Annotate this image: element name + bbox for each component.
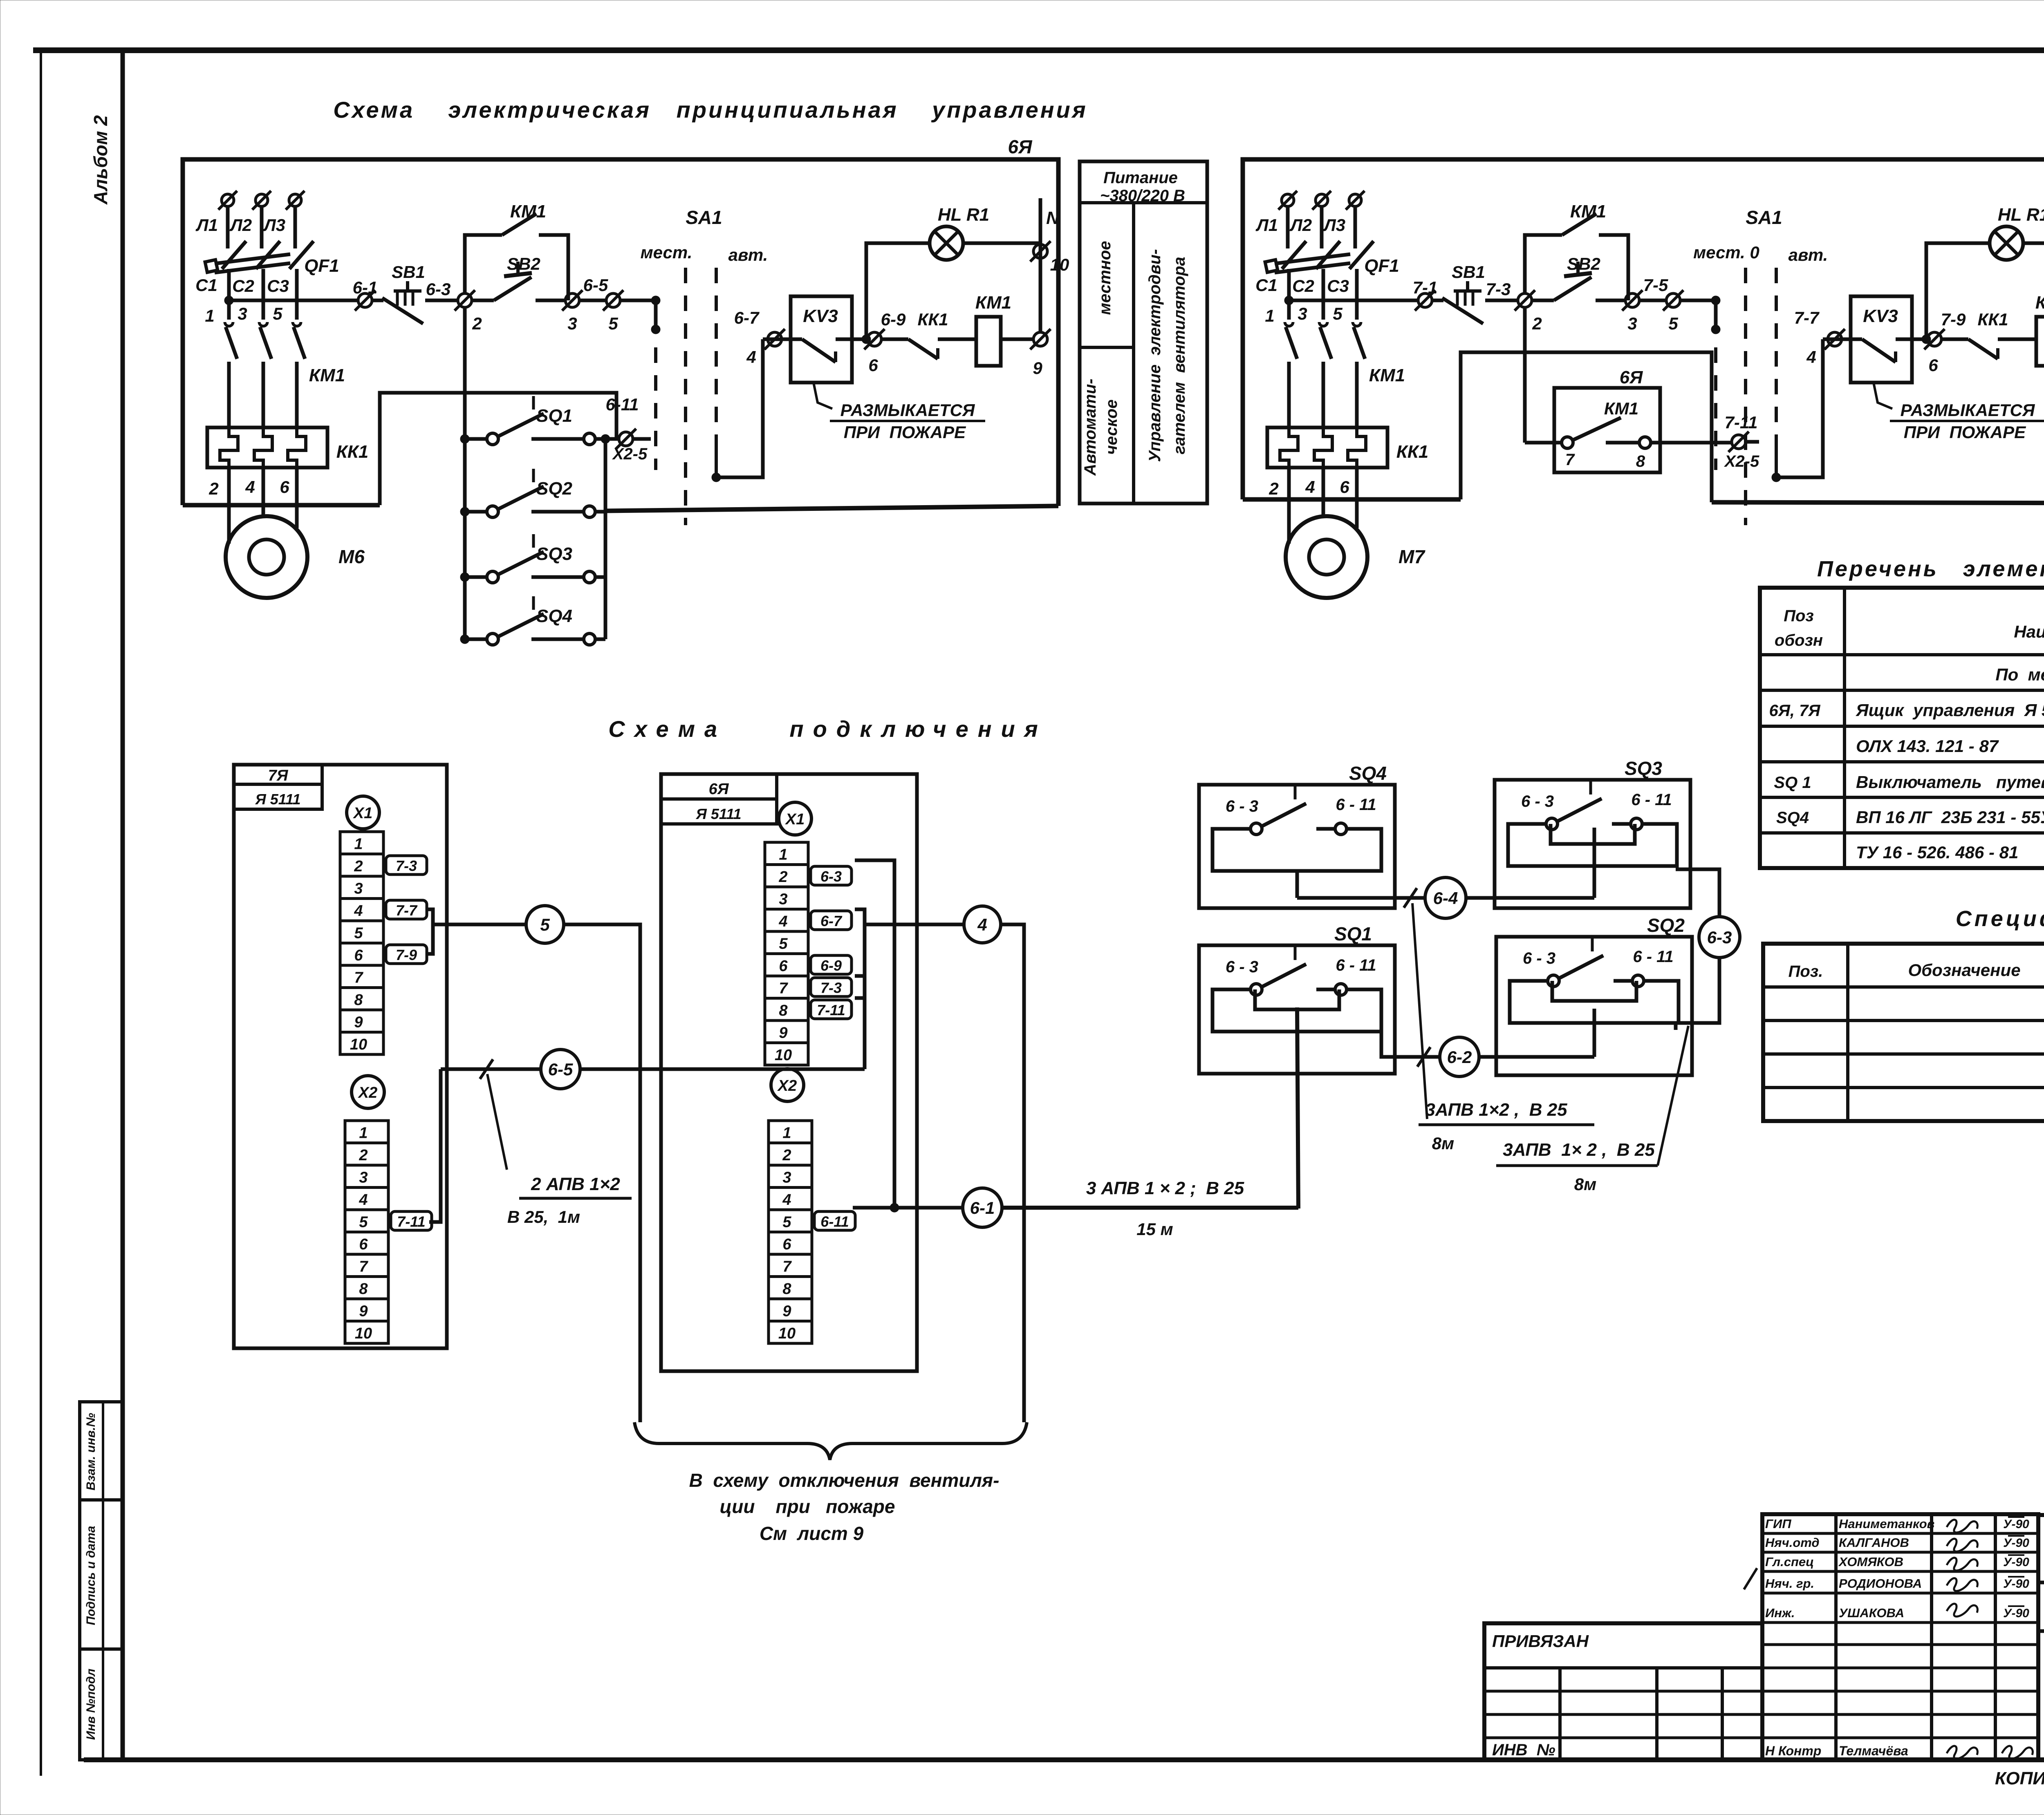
svg-text:Я 5111: Я 5111 xyxy=(255,791,301,808)
connector X2 label (6Я) xyxy=(771,1069,804,1101)
svg-text:6-7: 6-7 xyxy=(734,308,760,327)
svg-text:6Я, 7Я: 6Я, 7Я xyxy=(1769,702,1820,720)
terminal strip X1 (6Я) xyxy=(765,842,808,865)
svg-text:6Я: 6Я xyxy=(1008,136,1033,157)
svg-text:6-7: 6-7 xyxy=(820,913,843,929)
brace to fire shutdown note xyxy=(634,1422,1027,1460)
fire relay contact KV3 xyxy=(1851,296,1912,383)
signal lamp branch wire xyxy=(1926,243,1990,339)
wire 6-3 drop from X1 row 2 (6Я) xyxy=(855,860,894,1208)
svg-text:6: 6 xyxy=(868,356,878,375)
svg-text:Выключатель путевой: Выключатель путевой xyxy=(1856,772,2044,792)
wire 5 collector (7Я X1 rows 4-6) xyxy=(426,909,433,954)
limit switch SQ3 xyxy=(460,573,469,582)
svg-text:4: 4 xyxy=(1305,477,1315,497)
svg-text:КМ1: КМ1 xyxy=(1369,365,1405,385)
svg-text:C3: C3 xyxy=(1327,276,1349,295)
control box 6Я outline xyxy=(183,159,1058,506)
terminal 3 xyxy=(565,293,579,307)
terminal 2 / 6-3 xyxy=(458,293,472,307)
svg-text:6 - 3: 6 - 3 xyxy=(1523,949,1555,967)
svg-text:3: 3 xyxy=(567,314,577,333)
svg-text:8: 8 xyxy=(359,1280,368,1298)
svg-text:6 - 11: 6 - 11 xyxy=(1336,796,1376,814)
thermal relay KK1 break contact xyxy=(1968,339,1998,359)
svg-text:Наниметанков: Наниметанков xyxy=(1839,1517,1934,1531)
svg-text:7-11: 7-11 xyxy=(817,1002,845,1018)
svg-text:X2-5: X2-5 xyxy=(612,445,648,463)
project name cell xyxy=(2038,1629,2044,1633)
svg-text:9: 9 xyxy=(1033,358,1042,378)
svg-text:6Я: 6Я xyxy=(1620,367,1643,387)
signal lamp HL R1 xyxy=(1990,226,2023,260)
svg-text:SB1: SB1 xyxy=(1452,262,1485,282)
svg-text:Инж.: Инж. xyxy=(1765,1606,1795,1620)
terminal strip X2 (7Я) xyxy=(345,1121,388,1143)
svg-text:10: 10 xyxy=(1050,255,1069,274)
contactor KM1 auxiliary contact (self hold) xyxy=(465,235,502,293)
wire 4 to fire-shutdown riser xyxy=(1001,924,1024,1422)
SQ3 output lead xyxy=(1593,828,1596,898)
wire 6-1 xyxy=(894,1206,963,1210)
thermal relay KK1 heater box xyxy=(1267,427,1387,468)
connector X2 label (7Я) xyxy=(352,1076,384,1108)
svg-text:4: 4 xyxy=(1806,347,1816,367)
svg-text:ПРИ ПОЖАРЕ: ПРИ ПОЖАРЕ xyxy=(844,423,966,442)
svg-text:ТУ 16 - 526. 486 - 81: ТУ 16 - 526. 486 - 81 xyxy=(1856,843,2018,862)
contactor KM1 auxiliary contact (self hold) xyxy=(1525,235,1562,293)
svg-text:4: 4 xyxy=(359,1191,368,1209)
line terminal Л1 xyxy=(222,194,234,206)
svg-text:КМ1: КМ1 xyxy=(510,201,546,222)
svg-text:3: 3 xyxy=(238,304,247,323)
svg-text:ГИП: ГИП xyxy=(1765,1517,1791,1531)
svg-text:1: 1 xyxy=(205,306,214,325)
svg-text:РАЗМЫКАЕТСЯ: РАЗМЫКАЕТСЯ xyxy=(840,401,975,420)
svg-text:6: 6 xyxy=(782,1236,791,1253)
SQ2 internal bridge xyxy=(1552,981,1636,1001)
svg-text:SB1: SB1 xyxy=(392,262,425,282)
svg-text:гателем вентилятора: гателем вентилятора xyxy=(1170,257,1188,454)
svg-text:8: 8 xyxy=(779,1002,788,1019)
SQ2 internal loop xyxy=(1510,981,1679,1023)
svg-text:3: 3 xyxy=(1298,304,1307,323)
svg-text:ПРИВЯЗАН: ПРИВЯЗАН xyxy=(1492,1631,1589,1651)
pole wires below QF1 xyxy=(227,269,231,320)
cable marker circle 5 xyxy=(526,906,564,943)
terminal 4 / 7-7 xyxy=(1823,338,1851,341)
svg-text:10: 10 xyxy=(775,1047,792,1064)
terminal 6 xyxy=(862,335,871,344)
cable marker circle 4 xyxy=(964,906,1001,943)
wire SQ1 output to terminal xyxy=(605,437,620,441)
thermal relay KK1 break contact xyxy=(908,339,938,359)
svg-text:Няч. гр.: Няч. гр. xyxy=(1765,1576,1814,1591)
svg-text:мест.: мест. xyxy=(641,243,693,262)
limit switch SQ2 xyxy=(460,507,469,516)
svg-text:4: 4 xyxy=(977,915,987,934)
contactor coil KM1 xyxy=(976,317,1001,366)
svg-text:5: 5 xyxy=(354,925,363,942)
svg-text:~380/220 В: ~380/220 В xyxy=(1100,187,1185,205)
svg-text:5: 5 xyxy=(782,1214,791,1231)
svg-text:C2: C2 xyxy=(1292,276,1314,295)
svg-text:ции при пожаре: ции при пожаре xyxy=(720,1496,895,1517)
terminal 9 xyxy=(1033,332,1047,346)
svg-text:SQ4: SQ4 xyxy=(1776,809,1809,827)
svg-text:SB2: SB2 xyxy=(507,254,540,273)
svg-text:Телмачёва: Телмачёва xyxy=(1839,1743,1908,1758)
line terminal Л2 xyxy=(255,194,268,206)
connection box 7Я Я5111 outline xyxy=(234,765,447,1348)
frame border top xyxy=(33,47,2044,53)
limit switch box SQ4 xyxy=(1199,785,1395,908)
terminal 6 xyxy=(1922,335,1931,344)
svg-text:7: 7 xyxy=(779,980,788,997)
terminal 4 / 6-7 xyxy=(763,338,791,341)
svg-text:По месту: По месту xyxy=(1995,665,2044,684)
svg-text:У-90: У-90 xyxy=(2003,1555,2029,1569)
SQ3 internal bridge xyxy=(1551,824,1635,844)
SQ3 switch symbol xyxy=(1546,818,1558,830)
svg-text:КАЛГАНОВ: КАЛГАНОВ xyxy=(1839,1535,1909,1550)
svg-text:QF1: QF1 xyxy=(1364,256,1399,276)
wire collector rows 7-8 (6Я X1) xyxy=(855,976,865,998)
svg-text:6-9: 6-9 xyxy=(881,310,906,329)
svg-text:SB2: SB2 xyxy=(1567,254,1600,273)
connector X1 label (7Я) xyxy=(347,796,379,829)
svg-text:5: 5 xyxy=(359,1214,368,1231)
wire авт position to rung xyxy=(1776,339,1823,477)
svg-text:Поз: Поз xyxy=(1784,607,1814,625)
svg-text:6-11: 6-11 xyxy=(606,395,639,414)
svg-text:4: 4 xyxy=(778,913,787,930)
selector switch SA1 common xyxy=(651,296,660,305)
svg-text:Л2: Л2 xyxy=(229,215,252,235)
svg-text:SQ4: SQ4 xyxy=(536,606,572,626)
cable marker circle 6-5 xyxy=(541,1050,580,1089)
svg-text:мест. 0: мест. 0 xyxy=(1693,243,1759,262)
svg-text:X2: X2 xyxy=(777,1077,797,1094)
svg-text:6-2: 6-2 xyxy=(1447,1047,1472,1067)
svg-text:N: N xyxy=(1046,208,1060,228)
SQ1 internal bridge xyxy=(1255,989,1339,1009)
svg-text:6-4: 6-4 xyxy=(1433,888,1458,908)
svg-text:9: 9 xyxy=(779,1025,787,1042)
svg-text:2: 2 xyxy=(208,479,218,498)
svg-text:7-9: 7-9 xyxy=(396,947,417,963)
svg-text:7Я: 7Я xyxy=(268,767,289,784)
svg-text:М7: М7 xyxy=(1399,546,1425,567)
title block Привязан box xyxy=(1484,1623,1762,1760)
svg-text:6 - 3: 6 - 3 xyxy=(1521,792,1554,810)
svg-text:6-3: 6-3 xyxy=(820,868,842,885)
wire 6-5 xyxy=(441,1068,541,1071)
svg-text:8: 8 xyxy=(782,1280,791,1298)
svg-text:Спецификация: Спецификация xyxy=(1956,906,2044,931)
motor М7 xyxy=(1286,516,1367,598)
selector switch SA1 position lines xyxy=(1744,268,1747,525)
svg-text:3: 3 xyxy=(354,880,363,897)
svg-text:10: 10 xyxy=(778,1325,796,1342)
selector switch SA1 common xyxy=(1711,296,1720,305)
SQ1 output lead (to 6-1) xyxy=(1297,1007,1298,1209)
svg-text:местное: местное xyxy=(1096,241,1114,315)
svg-text:7-9: 7-9 xyxy=(1941,310,1966,329)
svg-text:М6: М6 xyxy=(338,546,365,567)
terminal 6-1 xyxy=(358,293,372,307)
svg-text:Поз.: Поз. xyxy=(1788,962,1823,980)
svg-text:6 - 11: 6 - 11 xyxy=(1336,956,1376,974)
svg-text:7-7: 7-7 xyxy=(1794,308,1820,327)
pole wires to motor xyxy=(1287,468,1291,544)
terminal 5 xyxy=(606,293,620,307)
neutral wire N xyxy=(1039,198,1042,332)
svg-text:1: 1 xyxy=(779,846,787,864)
note размыкается при пожаре leader xyxy=(814,383,832,409)
svg-text:Инв №подл: Инв №подл xyxy=(84,1668,98,1740)
svg-text:SQ4: SQ4 xyxy=(1349,763,1387,784)
cable marker circle 6-1 xyxy=(963,1188,1002,1227)
terminal 5 xyxy=(1666,293,1680,307)
svg-text:SQ3: SQ3 xyxy=(1625,758,1662,779)
frame border left xyxy=(121,50,125,1760)
svg-text:6: 6 xyxy=(354,947,363,964)
svg-text:5: 5 xyxy=(273,304,282,323)
svg-text:2: 2 xyxy=(359,1147,368,1164)
svg-text:10: 10 xyxy=(355,1325,372,1342)
svg-text:7-3: 7-3 xyxy=(820,979,842,996)
SQ4 internal loop xyxy=(1213,829,1381,871)
terminal 7-1 xyxy=(1418,293,1432,307)
svg-text:7: 7 xyxy=(359,1258,368,1276)
svg-text:SA1: SA1 xyxy=(686,207,722,228)
connection box 6Я header xyxy=(661,774,777,799)
svg-text:КМ1: КМ1 xyxy=(309,365,345,385)
svg-text:КМ1: КМ1 xyxy=(1570,201,1606,222)
svg-text:Л1: Л1 xyxy=(195,215,218,235)
svg-text:6 - 11: 6 - 11 xyxy=(1633,948,1673,966)
line terminal Л2 xyxy=(1316,194,1328,206)
svg-text:8: 8 xyxy=(1636,452,1645,470)
svg-text:SA1: SA1 xyxy=(1746,207,1782,228)
limit switch chain output bus xyxy=(604,439,607,639)
svg-text:У-90: У-90 xyxy=(2003,1577,2029,1591)
svg-text:Я 5111: Я 5111 xyxy=(696,806,742,822)
svg-text:7: 7 xyxy=(354,969,363,987)
wire авт position to rung xyxy=(716,339,763,477)
svg-text:6: 6 xyxy=(280,477,289,497)
svg-text:КК1: КК1 xyxy=(1396,442,1429,462)
svg-text:HL R1: HL R1 xyxy=(1998,205,2044,225)
svg-text:X1: X1 xyxy=(353,805,372,822)
svg-text:3: 3 xyxy=(782,1169,791,1186)
svg-text:4: 4 xyxy=(354,902,363,920)
terminal 2 / 7-3 xyxy=(1518,293,1532,307)
wire 6-3 link SQ3 to SQ2 xyxy=(1676,869,1719,915)
svg-text:5: 5 xyxy=(540,915,550,934)
svg-text:6-3: 6-3 xyxy=(426,280,451,299)
sheet outer edge line left xyxy=(40,48,42,1776)
svg-text:Управление электродви-: Управление электродви- xyxy=(1146,249,1164,462)
svg-text:3: 3 xyxy=(1627,314,1637,333)
svg-text:Л1: Л1 xyxy=(1255,215,1278,235)
SQ4 output lead xyxy=(1295,871,1299,898)
SQ2 switch symbol xyxy=(1548,975,1559,987)
svg-text:Наименование: Наименование xyxy=(2014,622,2044,641)
signal lamp branch wire xyxy=(866,243,930,339)
svg-text:4: 4 xyxy=(746,347,756,367)
cable label 3АПВ 8м (first) xyxy=(1412,903,1427,1119)
svg-text:C2: C2 xyxy=(232,276,254,295)
svg-text:Питание: Питание xyxy=(1103,169,1178,187)
limit switch box SQ1 xyxy=(1199,945,1395,1074)
svg-text:4: 4 xyxy=(782,1191,791,1209)
pole wires below QF1 xyxy=(1287,269,1291,320)
svg-text:ХОМЯКОВ: ХОМЯКОВ xyxy=(1838,1555,1903,1569)
svg-text:7-1: 7-1 xyxy=(1413,278,1438,297)
svg-text:5: 5 xyxy=(1668,314,1678,333)
svg-text:УШАКОВА: УШАКОВА xyxy=(1839,1606,1904,1620)
slash mark near staff table xyxy=(1744,1568,1757,1589)
note размыкается при пожаре leader xyxy=(1874,383,1892,409)
svg-text:3: 3 xyxy=(779,891,787,908)
svg-text:C3: C3 xyxy=(267,276,289,295)
motor М6 xyxy=(226,516,307,598)
svg-text:7-7: 7-7 xyxy=(396,902,418,919)
svg-text:SQ2: SQ2 xyxy=(536,479,573,499)
svg-text:3 АПВ 1 × 2 ; В 25: 3 АПВ 1 × 2 ; В 25 xyxy=(1086,1178,1244,1198)
svg-text:Н Контр: Н Контр xyxy=(1765,1743,1821,1758)
svg-text:ВП 16 ЛГ 23Б 231 - 55У2 3: ВП 16 ЛГ 23Б 231 - 55У2 3 xyxy=(1856,808,2044,827)
svg-text:6-5: 6-5 xyxy=(548,1060,573,1079)
control bus wire xyxy=(229,299,358,302)
wire 4 collector (6Я X1 rows 4-6) xyxy=(855,909,865,1069)
svg-text:5: 5 xyxy=(1333,304,1342,323)
svg-text:Взам. инв.№: Взам. инв.№ xyxy=(84,1413,98,1490)
svg-text:КК1: КК1 xyxy=(336,442,369,462)
svg-text:Обозначение: Обозначение xyxy=(1908,960,2020,980)
svg-text:Перечень элементов: Перечень элементов xyxy=(1817,557,2044,581)
svg-text:X2: X2 xyxy=(358,1084,377,1101)
svg-text:SQ1: SQ1 xyxy=(536,406,572,426)
selector switch SA1 position lines xyxy=(684,268,687,525)
limit switch box SQ2 xyxy=(1496,937,1692,1075)
connection box 6Я Я5111 outline xyxy=(661,774,917,1371)
svg-text:C1: C1 xyxy=(195,275,217,295)
svg-text:4: 4 xyxy=(245,477,255,497)
svg-text:Схема подключения: Схема подключения xyxy=(608,716,1047,742)
title block staff table xyxy=(1762,1514,2038,1760)
title block document number cell xyxy=(2038,1515,2044,1760)
svg-text:6 - 3: 6 - 3 xyxy=(1226,797,1258,815)
wire 5 to fire-shutdown riser xyxy=(565,924,640,1422)
svg-text:6-9: 6-9 xyxy=(820,957,842,974)
svg-text:3АПВ 1×2 , В 25: 3АПВ 1×2 , В 25 xyxy=(1425,1100,1567,1120)
line terminal Л3 xyxy=(289,194,301,206)
terminal 10 xyxy=(1033,244,1047,258)
svg-text:7-5: 7-5 xyxy=(1643,275,1668,295)
svg-text:7: 7 xyxy=(1565,451,1575,469)
svg-text:1: 1 xyxy=(1265,306,1274,325)
limit switch SQ1 xyxy=(460,434,469,443)
svg-text:КК1: КК1 xyxy=(918,310,948,329)
svg-text:7-3: 7-3 xyxy=(1486,280,1511,299)
svg-text:5: 5 xyxy=(779,935,788,953)
svg-text:2: 2 xyxy=(778,868,787,886)
pole wires to motor xyxy=(227,468,231,544)
svg-text:ческое: ческое xyxy=(1103,399,1121,454)
svg-text:QF1: QF1 xyxy=(304,256,339,276)
frame border bottom xyxy=(84,1757,2044,1762)
svg-text:2: 2 xyxy=(472,314,482,333)
svg-text:Схема электрическая принц: Схема электрическая принципиальная управ… xyxy=(333,97,1087,123)
SQ4 switch symbol xyxy=(1251,823,1262,835)
limit switch box SQ3 xyxy=(1495,780,1690,908)
svg-text:Гл.спец: Гл.спец xyxy=(1765,1555,1814,1569)
svg-text:HL R1: HL R1 xyxy=(938,205,989,225)
terminal 7-11 / X2-5 xyxy=(1651,441,1732,445)
svg-text:6 - 11: 6 - 11 xyxy=(1631,791,1672,809)
wire box-bottom riser to SQ chain xyxy=(380,393,616,505)
svg-text:КМ1: КМ1 xyxy=(975,293,1011,313)
contactor coil KM1 xyxy=(2036,317,2044,366)
line terminal Л1 xyxy=(1282,194,1294,206)
wire 7-11 from X2 (7Я) xyxy=(429,1069,441,1222)
svg-text:3: 3 xyxy=(359,1169,368,1186)
svg-text:1: 1 xyxy=(359,1125,368,1142)
wire 6-2 xyxy=(1378,1032,1439,1057)
limit switch chain feed wire xyxy=(463,307,467,639)
contactor KM1 main contacts xyxy=(226,327,237,359)
power legend box Питание ~380/220В xyxy=(1080,161,1207,504)
stop button SB1 xyxy=(1432,299,1443,302)
svg-text:SQ2: SQ2 xyxy=(1647,915,1685,936)
svg-text:Подпись и дата: Подпись и дата xyxy=(84,1526,98,1625)
svg-text:КМ1: КМ1 xyxy=(1604,399,1638,418)
stop button SB1 xyxy=(372,299,383,302)
svg-text:В схему отключения вентиля-: В схему отключения вентиля- xyxy=(689,1470,1000,1491)
svg-text:Автомати-: Автомати- xyxy=(1081,378,1099,476)
element list table xyxy=(1760,588,2044,868)
start button SB2 xyxy=(472,299,494,302)
terminal 3 xyxy=(1625,293,1639,307)
svg-text:6: 6 xyxy=(1928,356,1938,375)
svg-text:Ящик управления Я 5111: Ящик управления Я 5111 xyxy=(1856,700,2044,720)
svg-text:SQ3: SQ3 xyxy=(536,544,572,564)
interlock contact box 6Я xyxy=(1554,388,1660,472)
leader to cable label 2АПВ xyxy=(487,1074,507,1170)
svg-text:Няч.отд: Няч.отд xyxy=(1765,1535,1820,1550)
specification table xyxy=(1763,944,2044,1121)
svg-text:Л3: Л3 xyxy=(263,215,285,235)
signal lamp HL R1 xyxy=(930,226,963,260)
svg-text:РАЗМЫКАЕТСЯ: РАЗМЫКАЕТСЯ xyxy=(1901,401,2035,420)
svg-text:КК1: КК1 xyxy=(1978,310,2008,329)
svg-text:обозн: обозн xyxy=(1775,631,1823,649)
fire relay contact KV3 xyxy=(791,296,852,383)
svg-text:7-11: 7-11 xyxy=(1725,413,1758,432)
svg-text:6: 6 xyxy=(779,958,788,975)
svg-text:У-90: У-90 xyxy=(2003,1517,2029,1531)
svg-text:6 - 3: 6 - 3 xyxy=(1226,958,1258,976)
svg-text:КОПИРОВАЛ СИДОРОВА: КОПИРОВАЛ СИДОРОВА xyxy=(1995,1768,2044,1788)
control box 7Я outline xyxy=(1243,159,2044,503)
svg-text:X1: X1 xyxy=(785,811,805,828)
svg-text:6Я: 6Я xyxy=(709,781,729,798)
svg-text:У-90: У-90 xyxy=(2003,1607,2029,1620)
SQ2 output lead xyxy=(1593,1009,1596,1057)
